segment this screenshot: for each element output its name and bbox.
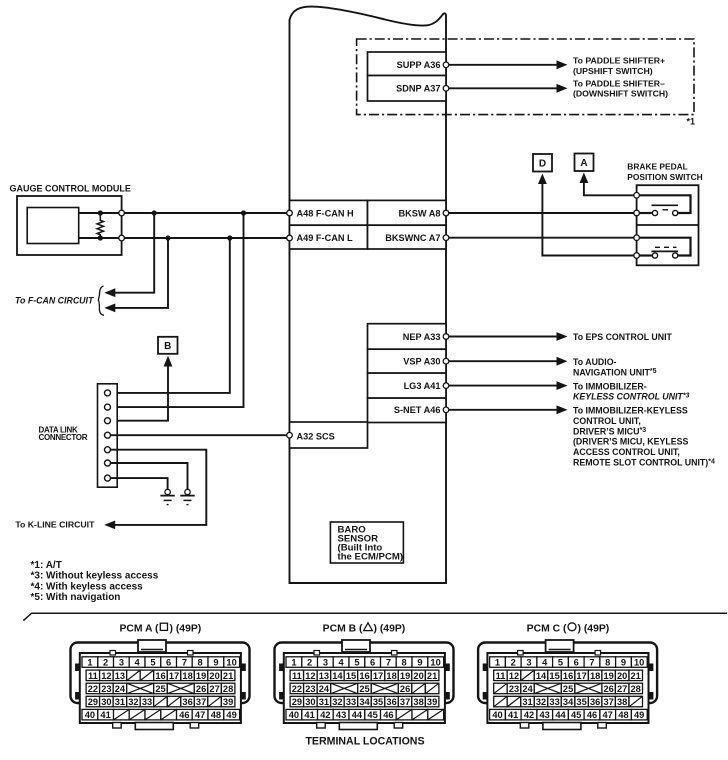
svg-text:17: 17 — [576, 671, 586, 681]
connector PCM C pin row 4 — [494, 696, 643, 707]
switch terminals on body edge — [634, 193, 640, 259]
wire BKSW A8 to switch — [446, 212, 637, 214]
svg-text:) (49P): ) (49P) — [170, 623, 202, 634]
svg-text:NEP A33: NEP A33 — [403, 332, 441, 342]
wire VSP A30 output — [446, 357, 568, 366]
label PCM A (square) (49P) — [119, 623, 201, 634]
svg-text:A49 F-CAN L: A49 F-CAN L — [297, 233, 354, 243]
svg-text:23: 23 — [305, 684, 315, 694]
svg-text:34: 34 — [359, 697, 370, 707]
connector code box D — [533, 154, 552, 172]
svg-text:38: 38 — [413, 697, 423, 707]
svg-text:7: 7 — [386, 658, 391, 668]
pin terminal SDNP A37 — [443, 86, 449, 92]
svg-text:B: B — [164, 341, 171, 352]
svg-text:29: 29 — [88, 697, 98, 707]
svg-text:33: 33 — [346, 697, 356, 707]
wire F-CAN H to F-CAN circuit — [104, 213, 154, 297]
wire S-NET A46 output — [446, 405, 568, 414]
brake pedal position switch body — [637, 185, 699, 265]
gauge control module outer box — [17, 196, 122, 255]
svg-text:A: A — [580, 158, 587, 169]
svg-text:31: 31 — [522, 697, 532, 707]
svg-text:6: 6 — [166, 658, 171, 668]
svg-text:16: 16 — [155, 671, 165, 681]
pin terminal BKSWNC A7 — [443, 235, 449, 241]
svg-text:49: 49 — [226, 710, 236, 720]
svg-text:BKSW A8: BKSW A8 — [398, 209, 440, 219]
footnotes — [31, 560, 159, 603]
svg-text:10: 10 — [430, 658, 440, 668]
wire DLC pin7 to ground — [111, 478, 168, 489]
svg-text:To F-CAN CIRCUIT: To F-CAN CIRCUIT — [15, 296, 94, 306]
svg-text:1: 1 — [87, 658, 92, 668]
connector PCM B pin row 2 — [290, 670, 439, 681]
DLC pins 1-7 — [105, 390, 111, 481]
svg-text:37: 37 — [196, 697, 206, 707]
terminal box SDNP A37 — [368, 76, 447, 102]
svg-text:28: 28 — [223, 684, 233, 694]
terminal box A49 F-CAN L — [290, 225, 368, 249]
svg-text:45: 45 — [571, 710, 581, 720]
svg-text:35: 35 — [373, 697, 383, 707]
svg-text:VSP A30: VSP A30 — [403, 357, 440, 367]
connector PCM C pin row 3 — [494, 683, 643, 694]
svg-text:D: D — [539, 158, 546, 169]
svg-text:5: 5 — [354, 658, 359, 668]
connector PCM B pin-grid body — [284, 653, 445, 723]
svg-text:PCM A (: PCM A ( — [119, 623, 159, 634]
svg-text:19: 19 — [196, 671, 206, 681]
svg-text:SUPP A36: SUPP A36 — [397, 60, 441, 70]
label DATA LINK CONNECTOR — [39, 425, 88, 442]
wire A to brake switch upper contact — [580, 173, 637, 196]
data link connector box — [98, 384, 118, 487]
svg-text:A48 F-CAN H: A48 F-CAN H — [297, 209, 355, 219]
terminal box BKSW A8 — [368, 200, 447, 225]
label destination of NEP A33 — [573, 332, 673, 342]
svg-text:11: 11 — [88, 671, 98, 681]
svg-text:4: 4 — [542, 658, 548, 668]
svg-text:43: 43 — [540, 710, 550, 720]
svg-text:37: 37 — [604, 697, 614, 707]
ground G2 — [180, 489, 194, 504]
svg-text:the ECM/PCM): the ECM/PCM) — [338, 552, 404, 563]
svg-text:PCM C (: PCM C ( — [527, 623, 567, 634]
pin terminal A49 F-CAN L — [287, 235, 293, 241]
wire DLC pin5 to K-LINE — [104, 450, 206, 530]
svg-text:23: 23 — [101, 684, 111, 694]
label To K-LINE CIRCUIT — [15, 519, 95, 529]
svg-text:4: 4 — [339, 658, 345, 668]
brace for F-CAN circuit — [98, 286, 104, 315]
connector PCM A pin row 2 — [86, 670, 235, 681]
svg-text:31: 31 — [115, 697, 125, 707]
wire LG3 A41 output — [446, 381, 568, 390]
svg-text:46: 46 — [383, 710, 393, 720]
pin terminal NEP A33 — [443, 334, 449, 340]
svg-text:15: 15 — [549, 671, 559, 681]
connector PCM B top notches — [314, 651, 397, 656]
connector PCM A pin-grid body — [80, 653, 241, 723]
svg-text:BRAKE PEDAL: BRAKE PEDAL — [627, 161, 688, 171]
svg-text:PCM B (: PCM B ( — [323, 623, 363, 634]
connector PCM A outer shell — [71, 643, 250, 704]
connector PCM B pin row 1 — [286, 657, 444, 668]
svg-text:18: 18 — [590, 671, 600, 681]
svg-text:21: 21 — [427, 671, 437, 681]
svg-text:To IMMOBILIZER-: To IMMOBILIZER- — [573, 381, 647, 391]
svg-text:38: 38 — [617, 697, 627, 707]
svg-text:33: 33 — [142, 697, 152, 707]
svg-text:49: 49 — [634, 710, 644, 720]
svg-text:KEYLESS CONTROL UNIT*3: KEYLESS CONTROL UNIT*3 — [573, 392, 690, 402]
wire F-CAN L to F-CAN circuit — [104, 238, 168, 312]
label GAUGE CONTROL MODULE — [10, 184, 131, 194]
terminal box LG3 A41 — [368, 373, 447, 398]
svg-text:26: 26 — [400, 684, 410, 694]
terminal box S-NET A46 — [368, 398, 447, 422]
gauge control module inner unit — [27, 208, 78, 244]
svg-text:(DRIVER’S MICU, KEYLESS: (DRIVER’S MICU, KEYLESS — [573, 437, 688, 447]
svg-text:26: 26 — [604, 684, 614, 694]
svg-text:13: 13 — [115, 671, 125, 681]
pin terminal VSP A30 — [443, 358, 449, 364]
svg-text:47: 47 — [603, 710, 613, 720]
svg-text:11: 11 — [292, 671, 302, 681]
svg-text:(UPSHIFT SWITCH): (UPSHIFT SWITCH) — [573, 66, 653, 76]
label destination of LG3 A41 — [573, 381, 690, 401]
svg-text:48: 48 — [618, 710, 628, 720]
BARO sensor note box — [330, 522, 403, 563]
svg-text:7: 7 — [589, 658, 594, 668]
connector PCM A side lock tabs — [75, 664, 246, 700]
svg-text:19: 19 — [400, 671, 410, 681]
wire BKSWNC A7 to switch — [446, 237, 637, 239]
connector PCM A top notches — [110, 651, 193, 656]
svg-text:BKSWNC A7: BKSWNC A7 — [385, 233, 440, 243]
connector PCM C pin row 1 — [490, 657, 648, 668]
svg-text:32: 32 — [332, 697, 342, 707]
svg-text:CONNECTOR: CONNECTOR — [39, 433, 88, 442]
pin terminal SUPP A36 — [443, 62, 449, 68]
svg-text:12: 12 — [305, 671, 315, 681]
connector PCM B pin row 4 — [290, 696, 439, 707]
svg-text:26: 26 — [196, 684, 206, 694]
svg-text:30: 30 — [305, 697, 315, 707]
svg-text:To AUDIO-: To AUDIO- — [573, 357, 617, 367]
svg-text:13: 13 — [319, 671, 329, 681]
wire F-CAN H (gauge module to A48) — [79, 212, 290, 214]
svg-text:21: 21 — [223, 671, 233, 681]
svg-text:46: 46 — [587, 710, 597, 720]
connector PCM C side lock tabs — [483, 664, 654, 700]
connector PCM C pin row 2 — [494, 670, 643, 681]
dash-dot option box (paddle shifter, *1) — [357, 39, 694, 115]
svg-text:DRIVER’S MICU*3: DRIVER’S MICU*3 — [573, 426, 646, 436]
label To PADDLE SHIFTER+ — [573, 56, 665, 76]
svg-text:) (49P): ) (49P) — [578, 623, 610, 634]
svg-text:2: 2 — [103, 658, 108, 668]
connector PCM B pin row 5 — [286, 709, 444, 720]
svg-text:46: 46 — [179, 710, 189, 720]
svg-text:To IMMOBILIZER-KEYLESS: To IMMOBILIZER-KEYLESS — [573, 406, 688, 416]
svg-text:41: 41 — [508, 710, 518, 720]
connector code box B — [158, 337, 178, 354]
label PCM C (circle) (49P) — [527, 623, 610, 635]
svg-text:To K-LINE CIRCUIT: To K-LINE CIRCUIT — [15, 519, 95, 529]
wire SDNP A37 to paddle shifter- — [446, 84, 568, 93]
svg-text:24: 24 — [522, 684, 533, 694]
svg-text:31: 31 — [319, 697, 329, 707]
section separator line — [23, 613, 727, 620]
connector PCM B bottom tabs — [317, 723, 403, 730]
svg-text:22: 22 — [88, 684, 98, 694]
connector PCM A pin row 1 — [82, 657, 240, 668]
connector PCM A pin row 3 — [86, 683, 235, 694]
svg-text:CONTROL UNIT,: CONTROL UNIT, — [573, 416, 641, 426]
svg-text:44: 44 — [352, 710, 363, 720]
svg-text:42: 42 — [524, 710, 534, 720]
pin terminal BKSW A8 — [443, 210, 449, 216]
gauge module connector terminals — [119, 210, 125, 241]
terminal box VSP A30 — [368, 349, 447, 373]
svg-text:32: 32 — [536, 697, 546, 707]
svg-text:1: 1 — [495, 658, 500, 668]
svg-text:5: 5 — [558, 658, 563, 668]
wire DLC pin4 to A32 SCS — [111, 434, 290, 436]
connector PCM A pin row 5 — [82, 709, 240, 720]
svg-text:To PADDLE SHIFTER–: To PADDLE SHIFTER– — [573, 79, 665, 89]
svg-text:3: 3 — [526, 658, 531, 668]
note *1 — [686, 117, 695, 127]
connector PCM B top latch — [342, 640, 370, 652]
PCM/ECM main box — [290, 7, 447, 583]
svg-text:16: 16 — [359, 671, 369, 681]
svg-text:45: 45 — [367, 710, 377, 720]
connector PCM A pin row 4 — [86, 696, 235, 707]
node F-CAN H branch 1 — [152, 210, 157, 215]
wire DLC pin3 to B — [111, 356, 173, 421]
svg-text:REMOTE SLOT CONTROL UNIT)*4: REMOTE SLOT CONTROL UNIT)*4 — [573, 458, 715, 468]
svg-text:9: 9 — [621, 658, 626, 668]
svg-text:41: 41 — [304, 710, 314, 720]
label To PADDLE SHIFTER- — [573, 79, 668, 99]
svg-text:18: 18 — [182, 671, 192, 681]
svg-text:12: 12 — [101, 671, 111, 681]
svg-text:SDNP A37: SDNP A37 — [396, 84, 440, 94]
svg-text:18: 18 — [386, 671, 396, 681]
pin terminal LG3 A41 — [443, 383, 449, 389]
svg-text:*3: Without keyless access: *3: Without keyless access — [31, 571, 159, 582]
svg-text:25: 25 — [563, 684, 573, 694]
svg-text:33: 33 — [549, 697, 559, 707]
label PCM B (triangle) (49P) — [323, 623, 406, 635]
svg-text:S-NET A46: S-NET A46 — [394, 405, 441, 415]
svg-text:10: 10 — [226, 658, 236, 668]
svg-text:25: 25 — [359, 684, 369, 694]
svg-text:TERMINAL LOCATIONS: TERMINAL LOCATIONS — [305, 736, 424, 748]
label destination of S-NET A46 — [573, 406, 715, 468]
label destination of VSP A30 — [573, 357, 657, 377]
svg-text:34: 34 — [563, 697, 574, 707]
svg-text:30: 30 — [101, 697, 111, 707]
connector PCM B pin row 3 — [290, 683, 439, 694]
svg-text:6: 6 — [574, 658, 579, 668]
connector PCM B side lock tabs — [279, 664, 450, 700]
wire F-CAN L to DLC pin1 — [111, 238, 230, 393]
svg-text:27: 27 — [209, 684, 219, 694]
svg-text:19: 19 — [604, 671, 614, 681]
svg-text:1: 1 — [291, 658, 296, 668]
svg-text:5: 5 — [150, 658, 155, 668]
label TERMINAL LOCATIONS — [305, 736, 424, 748]
switch S2 (brake pedal position, NC) internal wiring — [637, 238, 691, 258]
label BRAKE PEDAL POSITION SWITCH — [627, 161, 702, 182]
svg-text:36: 36 — [182, 697, 192, 707]
terminal box A32 SCS — [290, 422, 368, 448]
svg-text:40: 40 — [289, 710, 299, 720]
terminal box A48 F-CAN H — [290, 200, 368, 225]
svg-text:10: 10 — [634, 658, 644, 668]
switch S1 (brake pedal position, NO) internal wiring — [637, 195, 691, 215]
svg-text:ACCESS CONTROL UNIT,: ACCESS CONTROL UNIT, — [573, 447, 680, 457]
svg-text:A32 SCS: A32 SCS — [297, 431, 335, 441]
svg-text:32: 32 — [128, 697, 138, 707]
terminal box BKSWNC A7 — [368, 225, 447, 249]
svg-text:36: 36 — [386, 697, 396, 707]
svg-text:20: 20 — [209, 671, 219, 681]
svg-text:20: 20 — [413, 671, 423, 681]
svg-text:8: 8 — [605, 658, 610, 668]
pin terminal S-NET A46 — [443, 407, 449, 413]
svg-text:2: 2 — [307, 658, 312, 668]
svg-text:24: 24 — [115, 684, 126, 694]
svg-text:39: 39 — [223, 697, 233, 707]
svg-text:40: 40 — [492, 710, 502, 720]
svg-text:42: 42 — [320, 710, 330, 720]
ground G1 — [160, 489, 174, 504]
svg-text:8: 8 — [402, 658, 407, 668]
connector PCM B outer shell — [275, 643, 454, 704]
svg-text:8: 8 — [198, 658, 203, 668]
svg-text:LG3 A41: LG3 A41 — [404, 381, 441, 391]
svg-text:2: 2 — [511, 658, 516, 668]
pin terminal A48 F-CAN H — [287, 210, 293, 216]
svg-text:7: 7 — [182, 658, 187, 668]
resistor (CAN termination) — [97, 213, 103, 238]
svg-text:) (49P): ) (49P) — [374, 623, 406, 634]
svg-text:9: 9 — [417, 658, 422, 668]
node F-CAN H branch 2 — [241, 210, 246, 215]
svg-text:23: 23 — [509, 684, 519, 694]
svg-text:27: 27 — [617, 684, 627, 694]
connector PCM C outer shell — [478, 643, 657, 704]
svg-text:28: 28 — [631, 684, 641, 694]
svg-text:To PADDLE SHIFTER+: To PADDLE SHIFTER+ — [573, 56, 665, 66]
svg-text:17: 17 — [169, 671, 179, 681]
svg-text:36: 36 — [590, 697, 600, 707]
svg-text:4: 4 — [135, 658, 141, 668]
svg-text:24: 24 — [319, 684, 330, 694]
label To F-CAN CIRCUIT — [15, 296, 94, 306]
svg-text:*4: With keyless access: *4: With keyless access — [31, 581, 144, 592]
connector PCM A bottom tabs — [113, 723, 199, 730]
svg-text:GAUGE CONTROL MODULE: GAUGE CONTROL MODULE — [10, 184, 131, 194]
svg-text:(DOWNSHIFT SWITCH): (DOWNSHIFT SWITCH) — [573, 89, 668, 99]
svg-text:15: 15 — [346, 671, 356, 681]
svg-text:14: 14 — [332, 671, 343, 681]
svg-text:40: 40 — [85, 710, 95, 720]
svg-text:POSITION SWITCH: POSITION SWITCH — [627, 172, 702, 182]
svg-text:39: 39 — [427, 697, 437, 707]
svg-text:*5: With navigation: *5: With navigation — [31, 592, 121, 603]
svg-text:*1: *1 — [686, 117, 695, 127]
connector code box A — [575, 154, 594, 172]
svg-text:21: 21 — [631, 671, 641, 681]
svg-text:41: 41 — [100, 710, 110, 720]
svg-text:17: 17 — [373, 671, 383, 681]
svg-text:44: 44 — [555, 710, 566, 720]
wire SUPP A36 to paddle shifter+ — [446, 60, 568, 69]
svg-text:3: 3 — [323, 658, 328, 668]
svg-text:6: 6 — [370, 658, 375, 668]
svg-text:43: 43 — [336, 710, 346, 720]
svg-text:29: 29 — [292, 697, 302, 707]
svg-text:47: 47 — [195, 710, 205, 720]
svg-text:12: 12 — [509, 671, 519, 681]
wire DLC pin6 to ground — [111, 463, 188, 489]
svg-text:9: 9 — [213, 658, 218, 668]
wire F-CAN L (gauge module to A49) — [79, 237, 290, 239]
terminal box NEP A33 — [368, 324, 447, 350]
wire NEP A33 output — [446, 332, 568, 341]
connector PCM C bottom tabs — [520, 723, 606, 730]
svg-text:11: 11 — [496, 671, 506, 681]
connector PCM A top latch — [138, 640, 166, 652]
wire D to brake switch lower contact — [538, 174, 637, 256]
svg-text:16: 16 — [563, 671, 573, 681]
svg-text:35: 35 — [576, 697, 586, 707]
svg-text:3: 3 — [119, 658, 124, 668]
pin terminal A32 SCS — [287, 432, 293, 438]
svg-text:48: 48 — [211, 710, 221, 720]
svg-text:22: 22 — [292, 684, 302, 694]
svg-text:20: 20 — [617, 671, 627, 681]
connector PCM C pin row 5 — [490, 709, 648, 720]
node F-CAN L branch 1 — [165, 235, 170, 240]
connector PCM C top latch — [546, 640, 574, 652]
terminal box SUPP A36 — [368, 52, 447, 76]
svg-text:*1: A/T: *1: A/T — [31, 560, 62, 571]
svg-text:NAVIGATION UNIT*5: NAVIGATION UNIT*5 — [573, 367, 657, 377]
connector PCM C pin-grid body — [487, 653, 648, 723]
connector PCM C top notches — [518, 651, 601, 656]
junction dots at resistor — [98, 210, 103, 240]
svg-text:14: 14 — [536, 671, 547, 681]
svg-text:To EPS CONTROL UNIT: To EPS CONTROL UNIT — [573, 332, 673, 342]
wire F-CAN H to DLC pin2 — [111, 213, 244, 407]
svg-text:37: 37 — [400, 697, 410, 707]
svg-text:25: 25 — [155, 684, 165, 694]
node F-CAN L branch 2 — [227, 235, 232, 240]
